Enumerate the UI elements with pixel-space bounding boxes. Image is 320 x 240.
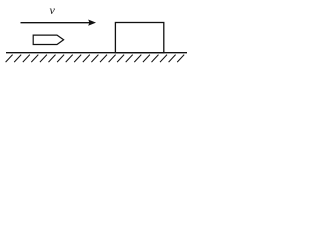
svg-text:v: v bbox=[50, 3, 56, 17]
